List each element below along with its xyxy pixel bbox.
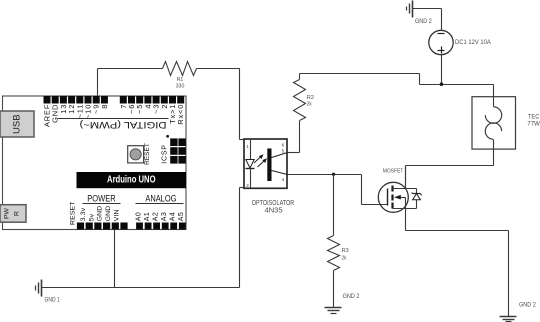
svg-text:2k: 2k (307, 101, 312, 107)
svg-text:RESET: RESET (69, 201, 76, 225)
svg-text:Arduino UNO: Arduino UNO (107, 175, 156, 186)
svg-text:4N35: 4N35 (265, 207, 283, 214)
svg-text:R2: R2 (307, 95, 314, 101)
svg-text:DC1 12V 10A: DC1 12V 10A (455, 39, 491, 46)
svg-text:POWER: POWER (87, 193, 116, 203)
svg-text:R3: R3 (342, 248, 349, 254)
svg-text:GND 2: GND 2 (343, 294, 360, 300)
svg-text:Rx<0: Rx<0 (176, 104, 185, 125)
svg-text:ANALOG: ANALOG (145, 193, 176, 203)
svg-text:5v: 5v (88, 213, 95, 221)
svg-text:A4: A4 (170, 212, 177, 222)
svg-text:A5: A5 (178, 212, 185, 222)
svg-text:R1: R1 (177, 77, 184, 83)
svg-text:A3: A3 (161, 212, 168, 222)
svg-text:PW: PW (4, 207, 11, 219)
svg-text:OPTOISOLATOR: OPTOISOLATOR (252, 200, 295, 207)
svg-text:77W: 77W (527, 120, 540, 127)
svg-text:GND: GND (96, 206, 103, 222)
svg-text:R: R (14, 211, 21, 216)
svg-text:GND: GND (105, 206, 112, 222)
svg-text:DIGITAL (PWM~): DIGITAL (PWM~) (80, 119, 167, 130)
svg-text:GND 1: GND 1 (45, 298, 61, 304)
svg-text:MOSFET: MOSFET (383, 169, 404, 175)
svg-text:RESET: RESET (144, 143, 151, 165)
svg-text:TEC: TEC (528, 113, 540, 120)
svg-text:VIN: VIN (114, 209, 121, 221)
svg-text:A1: A1 (144, 212, 151, 222)
svg-text:A0: A0 (135, 212, 142, 222)
svg-text:3.3v: 3.3v (80, 207, 87, 221)
svg-text:5: 5 (282, 149, 285, 154)
svg-text:6: 6 (282, 142, 285, 147)
svg-text:8: 8 (100, 104, 109, 109)
svg-text:330: 330 (176, 84, 185, 90)
svg-text:2k: 2k (342, 255, 347, 261)
svg-text:ICSP: ICSP (162, 144, 169, 164)
svg-text:2: 2 (246, 183, 249, 188)
svg-text:4: 4 (282, 177, 285, 182)
svg-text:A2: A2 (152, 212, 159, 222)
svg-text:USB: USB (11, 114, 22, 134)
svg-text:GND 2: GND 2 (415, 19, 432, 25)
svg-text:1: 1 (246, 144, 249, 149)
svg-text:GND 2: GND 2 (519, 303, 536, 309)
